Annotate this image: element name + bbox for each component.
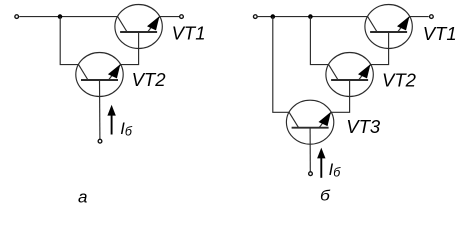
transistor VT3 (fig b) xyxy=(286,100,333,144)
svg-text:б: б xyxy=(320,188,330,205)
node collector tie point 1 (fig b) xyxy=(271,14,276,19)
terminal base input (fig a) xyxy=(98,139,102,143)
svg-text:VT2: VT2 xyxy=(132,69,167,90)
svg-text:VT2: VT2 xyxy=(382,69,417,90)
svg-text:а: а xyxy=(78,187,87,206)
terminal emitter output (fig a) xyxy=(180,15,184,19)
wire top rail (fig b) xyxy=(258,16,368,18)
transistor VT2 (fig a) xyxy=(76,53,123,97)
wire VT1 emitter to output (fig a) xyxy=(160,16,180,18)
current arrow I_b (fig b) xyxy=(317,148,325,178)
terminal input rail left (fig a) xyxy=(15,15,19,19)
node collector tie point (fig a) xyxy=(58,14,63,19)
wire VT1 emitter to output (fig b) xyxy=(410,16,429,18)
svg-text:VT1: VT1 xyxy=(172,22,206,43)
wire VT2 emitter to VT1 base (fig b) xyxy=(371,32,389,65)
wire VT2 emitter to VT1 base (fig a) xyxy=(121,32,139,65)
wire VT3 base lead (fig b) xyxy=(309,128,311,172)
svg-text:VT3: VT3 xyxy=(346,116,381,137)
transistor VT1 (fig b) xyxy=(365,5,412,49)
transistor VT1 (fig a) xyxy=(115,5,162,49)
terminal emitter output (fig b) xyxy=(430,15,434,19)
wire VT2 base lead (fig a) xyxy=(99,80,101,139)
wire junction to VT2 collector (fig a) xyxy=(60,17,78,65)
wire VT3 emitter to VT2 base (fig b) xyxy=(331,80,350,112)
node collector tie point 2 (fig b) xyxy=(308,14,313,19)
svg-text:Iб: Iб xyxy=(120,120,133,139)
current arrow I_b (fig a) xyxy=(107,105,115,135)
terminal input rail left (fig b) xyxy=(253,15,257,19)
terminal base input (fig b) xyxy=(309,172,313,176)
transistor VT2 (fig b) xyxy=(326,53,373,97)
wire top rail (fig a) xyxy=(19,16,117,18)
svg-text:Iб: Iб xyxy=(329,161,342,180)
wire junction 2 to VT2 collector (fig b) xyxy=(310,17,328,65)
svg-text:VT1: VT1 xyxy=(423,23,457,44)
wire junction 1 to VT3 collector (fig b) xyxy=(273,17,289,113)
